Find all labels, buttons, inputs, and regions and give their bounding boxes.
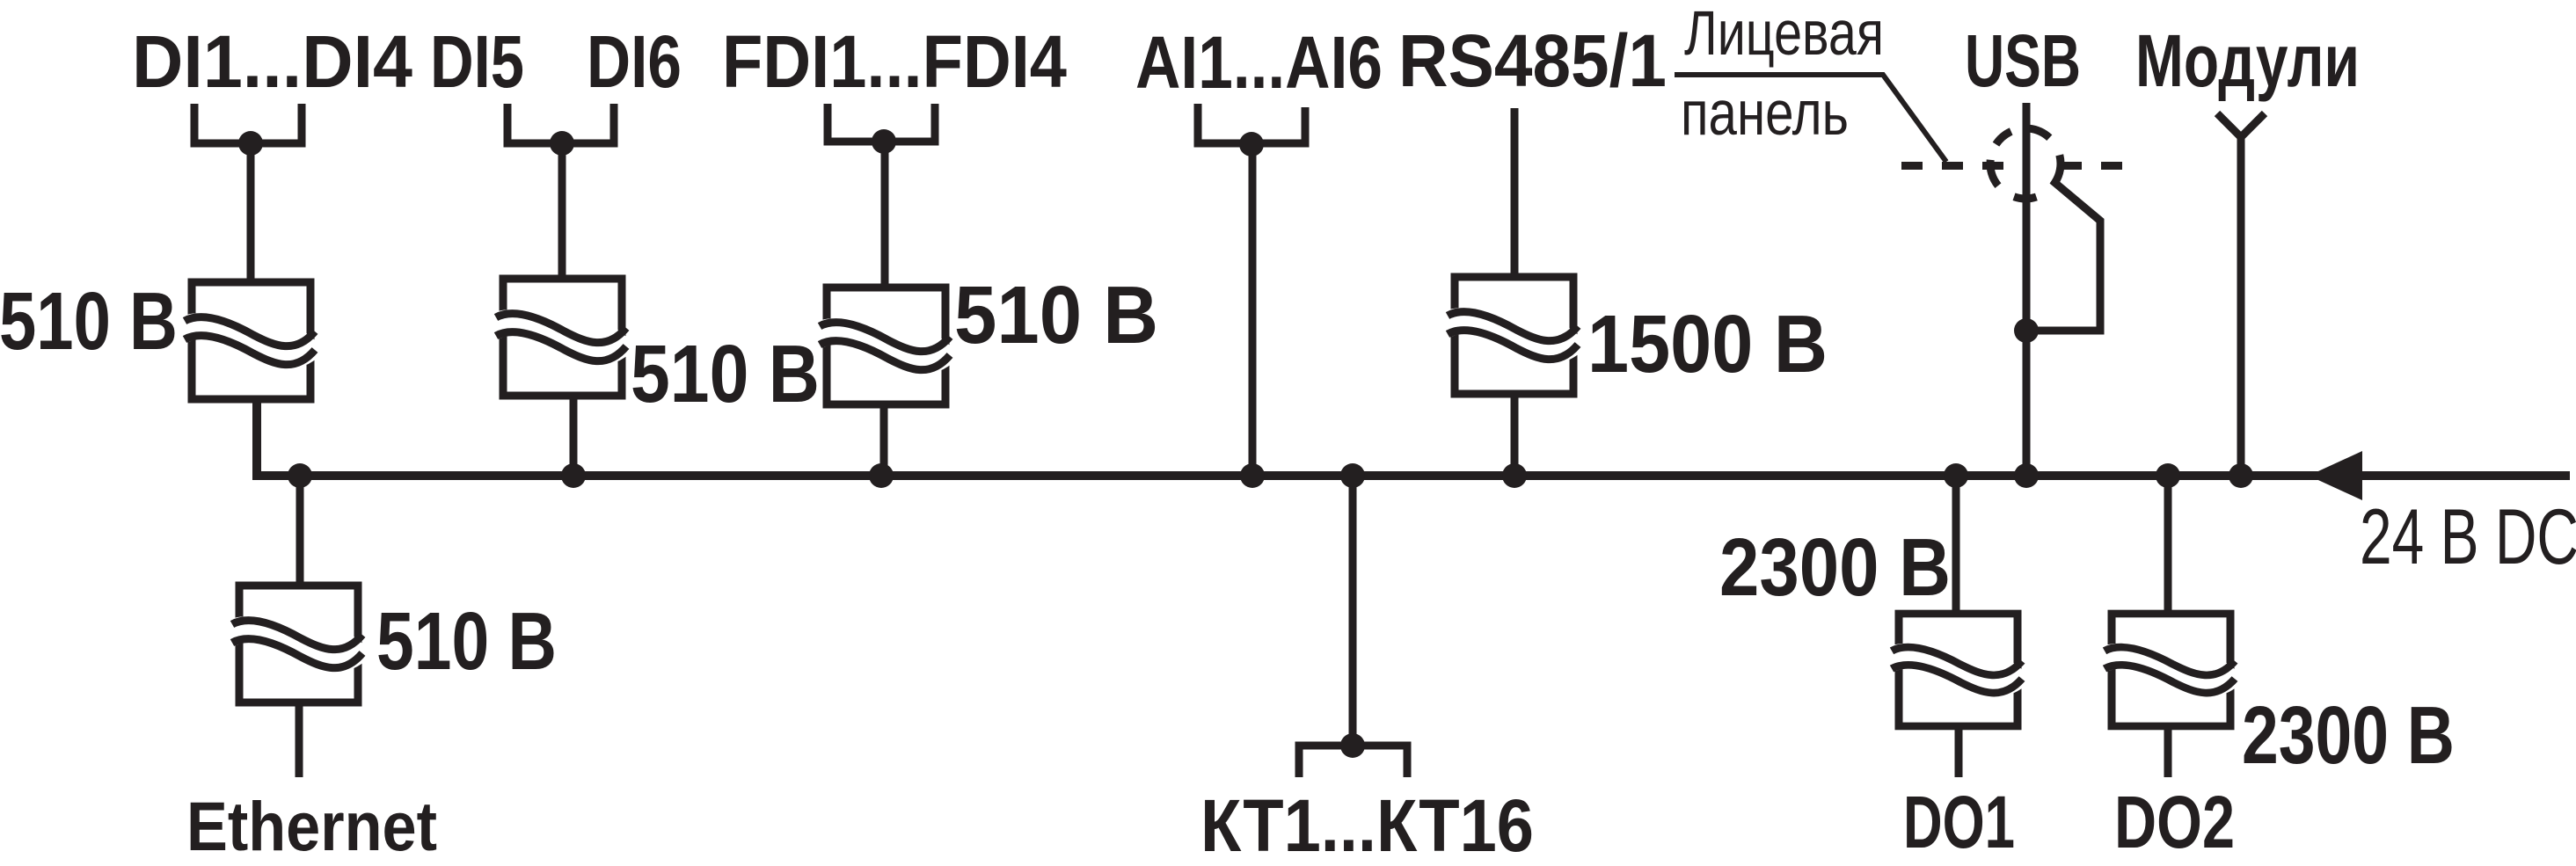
svg-text:USB: USB xyxy=(1965,19,2081,102)
svg-text:510 В: 510 В xyxy=(631,328,820,419)
svg-text:510 В: 510 В xyxy=(954,269,1158,360)
isolation barrier 510 V (DI1...DI4) xyxy=(183,282,316,399)
node dot bus/DO1 xyxy=(1944,463,1968,488)
bracket DI5 DI6 xyxy=(507,104,614,143)
svg-text:Модули: Модули xyxy=(2135,19,2360,102)
node dot KT bracket xyxy=(1340,733,1365,758)
label DO1 xyxy=(1903,781,2015,863)
wire Модули fork (Y) xyxy=(2217,113,2265,476)
node dot bus/KT xyxy=(1340,463,1365,488)
label DI5 xyxy=(430,20,524,103)
svg-text:панель: панель xyxy=(1681,79,1849,149)
wire Ethernet box to port xyxy=(296,701,303,777)
label КТ1...КТ16 xyxy=(1200,784,1534,866)
node dot USB bypass junction xyxy=(2014,318,2039,343)
svg-text:DO1: DO1 xyxy=(1903,781,2015,862)
svg-text:1500 В: 1500 В xyxy=(1587,298,1828,389)
isolation barrier 2300 V (DO2) xyxy=(2103,614,2236,726)
wire bus down to KT bracket xyxy=(1349,476,1357,746)
svg-text:RS485/1: RS485/1 xyxy=(1398,19,1667,102)
value label 2300 В (DO1) xyxy=(1719,521,1951,613)
value label 510 В (right of FDI box) xyxy=(954,269,1158,360)
wire USB bypass (non isolated path, starts as arc on dashed circle) xyxy=(2030,155,2100,331)
wire bracket to isolation box xyxy=(247,143,255,284)
svg-text:2300 В: 2300 В xyxy=(1719,521,1951,613)
wire DO1 box to port xyxy=(1955,724,1963,777)
label DO2 xyxy=(2114,781,2235,863)
label USB xyxy=(1965,19,2081,102)
bracket DI1...DI4 xyxy=(194,104,302,143)
isolation barrier 510 V (FDI) xyxy=(818,287,951,404)
svg-text:DI6: DI6 xyxy=(587,20,682,103)
arrow on bus (24 V DC feed, pointing left) xyxy=(2309,451,2362,500)
label RS485/1 xyxy=(1398,19,1667,102)
node dot bus/Ethernet xyxy=(288,463,312,488)
svg-text:DI1...DI4: DI1...DI4 xyxy=(132,20,412,103)
wire: main 24V bus with left elbow up to DI1..DI4 isolation box xyxy=(257,398,2570,476)
leader line from label to dashed panel boundary xyxy=(1675,75,1946,162)
node dot bus/USB xyxy=(2014,463,2039,488)
svg-text:Лицевая: Лицевая xyxy=(1684,0,1884,69)
node dot bus/FDI column xyxy=(869,463,894,488)
isolation barrier 2300 V (DO1) xyxy=(1890,614,2023,726)
svg-text:AI1...AI6: AI1...AI6 xyxy=(1135,21,1383,104)
svg-text:Ethernet: Ethernet xyxy=(186,787,437,862)
label Ethernet xyxy=(186,787,437,865)
isolation barrier 1500 V (RS485/1) xyxy=(1446,277,1579,394)
label FDI1...FDI4 xyxy=(722,20,1067,103)
dashed panel boundary line (left of circle) xyxy=(1901,162,2007,170)
wire box to bus xyxy=(1511,392,1519,476)
value label 510 В (left of DI box) xyxy=(0,275,178,367)
svg-text:FDI1...FDI4: FDI1...FDI4 xyxy=(722,20,1067,103)
wire bus to DO1 isolation box xyxy=(1952,476,1960,615)
node dot FDI bracket xyxy=(872,129,896,154)
wire bus to DO2 isolation box xyxy=(2164,476,2172,615)
label панель xyxy=(1681,79,1849,149)
value label 510 В (right of Ethernet box) xyxy=(376,595,557,687)
node dot bus/DI5 column xyxy=(561,463,586,488)
wire box to bus xyxy=(880,402,888,476)
svg-text:DI5: DI5 xyxy=(430,20,524,103)
label 24 В DC xyxy=(2360,492,2576,580)
label Модули xyxy=(2135,19,2360,102)
bracket AI1...AI6 xyxy=(1198,104,1305,143)
wire box to bus xyxy=(570,395,578,476)
wire USB vertical to bus xyxy=(2023,103,2031,476)
value label 1500 В xyxy=(1587,298,1828,389)
label DI1...DI4 xyxy=(132,20,412,103)
svg-text:DO2: DO2 xyxy=(2114,781,2235,862)
svg-text:510 В: 510 В xyxy=(0,275,178,367)
bracket KT1...KT16 (inverted) xyxy=(1299,746,1407,777)
node dot AI bracket xyxy=(1239,132,1264,156)
wire bracket to isolation box xyxy=(881,142,889,289)
dashed panel boundary line (right of circle) xyxy=(2061,162,2127,170)
wire RS485 to isolation box xyxy=(1511,108,1519,279)
wire AI to bus (non isolated) xyxy=(1249,144,1257,476)
value label 2300 В (DO2) xyxy=(2242,689,2455,781)
wire bus to Ethernet isolation box xyxy=(296,476,304,587)
svg-text:510 В: 510 В xyxy=(376,595,557,687)
dashed circle (USB on front panel), drawn as four arcs xyxy=(1990,128,2049,199)
wire bracket to isolation box xyxy=(558,143,566,280)
wire DO2 box to port xyxy=(2164,724,2172,777)
svg-text:КТ1...КТ16: КТ1...КТ16 xyxy=(1200,784,1534,862)
bracket FDI1...FDI4 xyxy=(828,104,935,142)
label DI6 xyxy=(587,20,682,103)
label AI1...AI6 xyxy=(1135,21,1383,104)
node dot bus/RS485 xyxy=(1502,463,1527,488)
node dot bus/AI column xyxy=(1240,463,1265,488)
node dot bus/Модули xyxy=(2229,463,2253,488)
node dot DI1...DI4 bracket xyxy=(238,131,263,156)
isolation barrier 510 V (DI5/DI6) xyxy=(494,279,627,396)
node dot DI5/DI6 bracket xyxy=(550,131,574,156)
svg-text:24 В DC: 24 В DC xyxy=(2360,492,2576,580)
node dot bus/DO2 xyxy=(2156,463,2180,488)
value label 510 В (right of DI5/6 box) xyxy=(631,328,820,419)
label Лицевая xyxy=(1684,0,1884,69)
svg-text:2300 В: 2300 В xyxy=(2242,689,2455,781)
isolation barrier 510 V (Ethernet) xyxy=(230,586,363,702)
